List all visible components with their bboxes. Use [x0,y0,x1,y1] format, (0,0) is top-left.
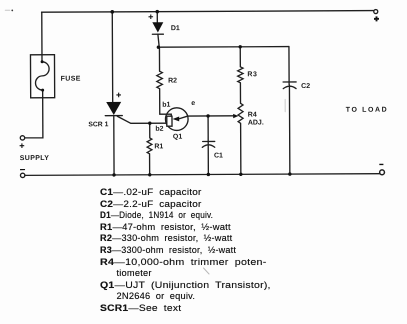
svg-text:R2: R2 [168,78,177,85]
svg-text:SCR 1: SCR 1 [88,121,108,128]
svg-text:ADJ.: ADJ. [248,120,264,127]
svg-text:C2: C2 [301,83,310,90]
svg-text:R3: R3 [247,71,257,78]
svg-text:D1: D1 [171,25,180,32]
svg-text:C1: C1 [214,153,223,160]
svg-text:TO LOAD: TO LOAD [346,107,389,114]
svg-text:R1: R1 [154,143,163,150]
svg-text:SUPPLY: SUPPLY [20,155,50,162]
svg-text:R4: R4 [248,112,257,119]
svg-text:Q1: Q1 [173,134,182,141]
svg-text:b1: b1 [162,102,170,109]
svg-text:e: e [191,100,195,107]
svg-text:FUSE: FUSE [61,76,81,83]
svg-text:b2: b2 [155,126,163,133]
